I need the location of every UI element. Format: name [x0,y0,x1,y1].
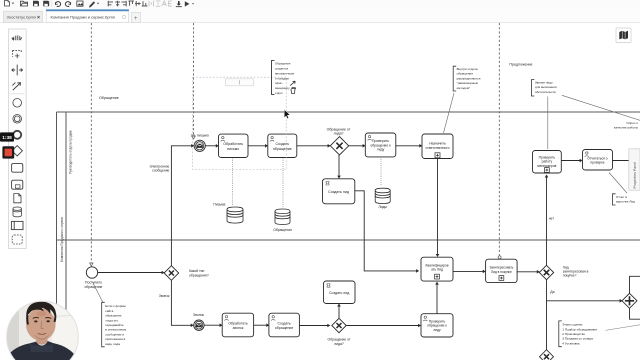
annotation Если с формы сайта... [102,302,127,347]
association to Назначить ответственного [444,93,455,133]
flow Отчитаться to right edge [613,160,629,162]
align icon 5 [135,1,141,6]
svg-text:Предложение: Предложение [509,63,532,67]
svg-text:Создать лид: Создать лид [328,190,350,194]
flow up to Квалифицировать Лид [435,282,439,314]
palette: group [12,235,22,244]
align icon 2 [115,1,120,7]
svg-text:в электронном: в электронном [105,328,126,332]
svg-text:лиду: лиду [433,328,441,332]
message catch event Эл. письмо [191,134,209,152]
task Проверить обращение к лиду (top) [365,133,396,157]
toolbar icon: play [185,1,190,6]
label Опрос о качестве работы [614,121,639,129]
flow event to Обработать письмо [205,144,219,148]
svg-text:1:38: 1:38 [2,135,12,141]
message flow to Эл.письмо event (dashed vertical) [192,23,195,139]
svg-text:Создать: Создать [275,142,289,146]
message flow Обращение (dashed vertical) [90,23,93,266]
svg-text:письмо: письмо [227,147,239,151]
task Отчитаться о проверке [583,150,613,171]
svg-text:лида?: лида? [334,132,344,136]
svg-text:лида?: лида? [334,342,344,346]
palette: end event [13,131,21,139]
svg-text:Обращения: Обращения [273,228,292,232]
svg-text:Создать: Создать [277,321,290,325]
svg-text:Обработать: Обработать [228,321,248,325]
toolbar icon: open folder [21,1,28,6]
stop recording button [2,146,14,158]
svg-text:обращение: обращение [85,285,103,289]
palette: participant [11,221,23,229]
forehead blemish [37,311,47,316]
svg-text:приложении в: приложении в [105,337,125,341]
flow gateway down to Создать лид (top) [337,155,341,179]
message catch event Звонок [193,313,204,330]
association start event to Если с формы annotation [93,282,103,302]
align icon 4 [128,1,134,6]
svg-text:Обращение: Обращение [275,62,291,66]
svg-text:обращение: обращение [273,147,292,151]
svg-text:1 Подбор оборудования: 1 Подбор оборудования [562,327,597,331]
task Создать лид (top) [323,179,355,204]
svg-text:методом": методом" [457,86,471,90]
flow down to bottom gateway [546,301,548,350]
flow нет up from gateway to Проверить работу [545,175,549,266]
svg-text:автоматически: автоматически [275,71,295,75]
context pad: trash icon [291,88,296,94]
flow Назначить ответственного down to Квалифицировать [436,159,440,258]
annotation Внутри отдела... [453,66,481,91]
annotation Обращение создается... (selected) [272,61,295,95]
gateway Лид заинтересован в покупке? [539,265,588,279]
toolbar caret 1 [12,3,15,5]
svg-text:обстоятельств: обстоятельств [535,90,556,94]
toolbar caret 2 [97,3,99,5]
svg-text:офис-: офис- [275,81,283,85]
flow to Назначить ответственного [396,144,423,148]
label Электронное сообщение [149,164,169,172]
flow to Создать обращение (bottom) [254,323,270,327]
toolbar icon: undo [55,2,60,7]
svg-text:для выяснения: для выяснения [535,85,557,89]
task Обработать звонок [222,313,253,337]
svg-text:Создать лид: Создать лид [329,291,349,295]
svg-text:качестве работы: качестве работы [614,125,639,129]
task Создать обращение [268,134,297,157]
flow Проверить работу to Отчитаться [561,159,582,163]
svg-text:сообщение: сообщение [152,169,169,173]
align icon 6 [142,1,148,6]
toolbar icon: pen tool [89,1,95,7]
distribute icon 2 (disabled) [156,1,161,6]
data association task1 to Письма [232,158,234,205]
pool top border [56,111,640,113]
pool left border [55,112,57,360]
flow to gateway Обращение от лида? (bottom) [299,324,330,328]
mouse cursor [284,110,290,119]
svg-text:карточке Лид: карточке Лид [616,200,635,204]
disabled icon A [162,1,166,6]
flow Заинтересовать to gateway Лид заинтересован [517,270,540,274]
svg-text:отдел: отдел [275,91,283,95]
message flow Предложение (dashed vertical) [498,23,501,259]
svg-text:3 Продажа со склада: 3 Продажа со склада [562,337,593,341]
start event Поступило обращение [85,267,103,289]
gateway Обращение от лида? (bottom) [328,318,351,346]
toolbar background [0,0,640,10]
distribute icon 1 (disabled) [149,1,154,7]
toolbar caret 3 [192,3,194,5]
properties panel collapsed tab [629,149,640,190]
tab 2 active Компания Продажи и сервис.bpmn [46,9,129,22]
flow Квалифицировать to Заинтересовать [453,270,486,274]
svg-text:4 Установка: 4 Установка [562,341,579,345]
shoulders / shirt [4,341,78,360]
gateway bottom (partial) [540,350,554,360]
toolbar icon: deploy [176,1,182,7]
palette tool: hand [12,35,22,40]
association annotation to Проверить работу [547,97,549,150]
flow event to Обработать звонок [204,323,222,327]
svg-text:обращение: обращение [105,314,122,318]
svg-text:Звонок: Звонок [159,294,170,298]
svg-text:обращения: обращения [457,72,474,76]
svg-text:Properties Panel: Properties Panel [633,162,637,189]
minimap toggle box [616,28,631,43]
task Заинтересовать Лид в покупке (subprocess) [486,259,517,282]
svg-text:передавайте: передавайте [105,323,124,327]
svg-text:Звонки лиду: Звонки лиду [535,80,553,84]
svg-text:"равномерным: "равномерным [457,81,478,85]
toolbar icon: save as [43,1,49,7]
svg-text:создается: создается [275,67,288,71]
lane divider [56,239,640,241]
align icon 3 [121,1,126,7]
data association task2 to Обращения [282,158,284,207]
palette: subprocess [12,180,23,189]
flow gateway up to Создать лид (bottom) [337,304,341,319]
svg-text:менеджеру: менеджеру [275,86,290,90]
parallel branch up-right [630,276,640,293]
flow gateway down to Звонок event [171,280,193,327]
svg-text:распределяются: распределяются [457,76,481,80]
palette: data object [14,194,21,203]
svg-text:Если с формы: Если с формы [105,304,126,308]
data store Лиды [375,188,390,203]
svg-text:покупке?: покупке? [563,274,577,278]
align icon 1 [108,1,113,7]
selection dashed rect [193,77,287,169]
eyes [34,320,37,322]
parallel gateway [622,293,637,308]
stubble [33,330,51,340]
svg-text:Письма: Письма [213,202,225,206]
association Этапы сделки diagonal [606,325,640,331]
neck [36,333,48,345]
task Проверить обращение к лиду (bottom) [421,314,453,337]
toolbar icon: redo [65,2,70,7]
timer chip 1:38 [0,132,14,141]
svg-text:Компания Продажи и сервис.bpmn: Компания Продажи и сервис.bpmn [51,15,116,20]
palette separator [10,93,24,95]
svg-text:Руководитель отдела продаж: Руководитель отдела продаж [69,130,73,174]
head [26,308,56,340]
svg-text:и попадает: и попадает [275,76,290,80]
svg-text:Обработать: Обработать [223,142,243,146]
task Проверить работу менеджеров (subprocess) [533,151,562,174]
svg-text:×: × [37,15,40,21]
svg-text:Лиды: Лиды [378,205,387,209]
task Назначить ответственного (subprocess) [422,134,453,159]
flow Создать лид (top) to Квалифицировать Лид [355,191,419,273]
toolbar icon: export image [77,1,84,6]
mouth [38,332,46,335]
eyebrows [33,317,39,318]
svg-text:Опрос о: Опрос о [626,121,638,125]
svg-text:Компания Продажи и сервис: Компания Продажи и сервис [60,216,64,262]
gateway Какой тип обращения? [164,266,209,281]
svg-text:обращение: обращение [275,326,294,330]
svg-text:+: + [134,16,138,22]
svg-text:Зоостатус.bpmn: Зоостатус.bpmn [7,15,37,20]
task Создать лид (bottom) [324,281,356,304]
annotation Звонки лиду... [531,80,557,96]
svg-text:2 Производство: 2 Производство [562,332,585,336]
data store Обращения [275,209,290,224]
svg-text:лиду: лиду [377,148,385,152]
svg-text:сообщении и: сообщении и [105,332,124,336]
svg-text:Этапы сделки:: Этапы сделки: [562,323,583,327]
palette: data store [13,207,21,217]
palette: task [12,164,23,173]
parallel branch down-right [630,308,640,319]
svg-text:Лид в покупке: Лид в покупке [491,270,512,274]
palette tool: global connect [12,83,20,91]
annotation Отчет в карточке Лид [613,194,636,205]
disabled icon E [169,1,172,6]
svg-text:ответственного: ответственного [426,146,450,150]
palette: start event [13,99,22,108]
association long diagonal to Опрос [562,95,640,120]
hair [26,302,56,321]
flow to Создать обращение [248,144,268,148]
tab 3 plus [132,12,141,22]
svg-text:нет: нет [549,217,555,221]
task Квалифицировать Лид (subprocess) [421,257,453,281]
svg-text:сайта: сайта [105,309,113,313]
svg-text:звонок: звонок [233,326,244,330]
svg-text:менеджеров: менеджеров [537,164,556,168]
flow gateway to Проверить обращение к лиду [349,144,366,148]
pool label band separator [65,112,67,360]
svg-text:обращения?: обращения? [189,274,209,278]
webcam rim [7,301,79,360]
ghost label box [226,79,254,86]
wall background [5,300,81,360]
svg-text:тогда это: тогда это [105,318,118,322]
svg-text:Обращение: Обращение [99,96,119,100]
svg-text:ать Лид: ать Лид [431,268,443,272]
svg-text:Внутри отдела: Внутри отдела [457,67,478,71]
svg-text:Да: Да [550,290,554,294]
gateway Обращение от лида? (top) [327,127,351,155]
tab bar background [0,10,640,23]
metal bracket [68,300,70,312]
association Отчитаться to Отчет в карточке [609,173,627,194]
toolbar icon: new file [5,1,10,7]
annotation Этапы сделки [559,321,597,347]
palette tool: lasso [13,50,22,58]
toolbar separator [51,1,53,7]
nose [41,321,44,329]
flow gateway up to Эл.письмо event [171,144,194,266]
flow to gateway [297,144,331,148]
flow gateway right to Проверить обращение (bottom) [346,324,421,328]
data store Письма [227,207,243,223]
task Создать обращение (bottom) [269,313,300,337]
toolbar icon: save [33,1,39,7]
flow Да down and right to parallel gateway [547,280,623,303]
svg-text:Отчет в: Отчет в [616,195,627,199]
palette tool: space [12,65,23,76]
palette: gateway [12,146,22,156]
svg-text:виде лида: виде лида [105,342,120,346]
tab 1 inactive Зоостатус.bpmn [3,11,42,22]
flow start event to gateway Какой тип [98,271,165,275]
task Обработать письмо [219,134,249,157]
svg-text:Эл. письмо: Эл. письмо [191,134,209,138]
palette container [9,29,27,249]
data association task3 to Лиды [380,157,382,186]
svg-text:Звонок: Звонок [193,313,204,317]
context pad: connect icon [290,81,295,85]
svg-text:проверке: проверке [590,161,604,165]
palette: intermediate event [13,115,22,124]
